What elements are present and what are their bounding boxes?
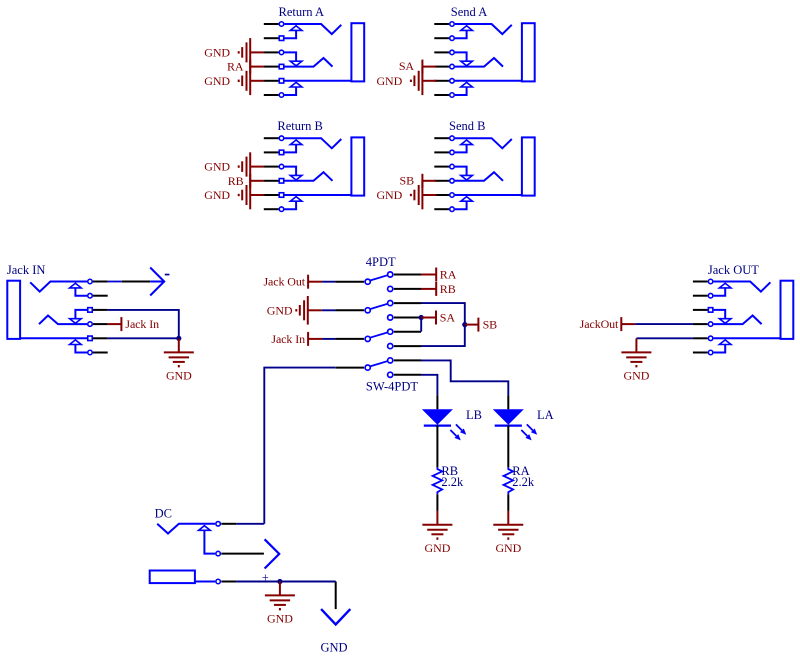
svg-text:GND: GND (204, 45, 230, 59)
svg-text:RA: RA (440, 268, 457, 282)
svg-text:SB: SB (483, 318, 498, 332)
svg-text:GND: GND (204, 74, 230, 88)
svg-text:LA: LA (537, 408, 554, 422)
svg-text:SW-4PDT: SW-4PDT (366, 379, 418, 393)
svg-text:RB: RB (228, 174, 244, 188)
svg-text:SA: SA (440, 311, 456, 325)
svg-text:Jack Out: Jack Out (263, 275, 305, 289)
svg-text:GND: GND (267, 303, 293, 317)
svg-text:Jack In: Jack In (271, 332, 305, 346)
svg-text:+: + (262, 571, 269, 585)
svg-text:Return B: Return B (277, 119, 322, 133)
svg-text:GND: GND (204, 188, 230, 202)
svg-text:DC: DC (155, 507, 172, 521)
svg-text:RB: RB (440, 282, 456, 296)
svg-text:GND: GND (204, 160, 230, 174)
svg-text:Jack IN: Jack IN (7, 263, 46, 277)
svg-text:2.2k: 2.2k (512, 475, 535, 489)
svg-text:GND: GND (376, 74, 402, 88)
svg-text:4PDT: 4PDT (366, 255, 396, 269)
svg-text:JackOut: JackOut (580, 317, 619, 331)
svg-text:Send B: Send B (449, 119, 485, 133)
svg-text:Send A: Send A (451, 5, 487, 19)
svg-text:2.2k: 2.2k (441, 475, 464, 489)
svg-text:SB: SB (400, 173, 415, 187)
svg-text:LB: LB (466, 408, 482, 422)
svg-text:RA: RA (227, 60, 244, 74)
svg-text:Jack OUT: Jack OUT (708, 263, 759, 277)
svg-text:Return A: Return A (279, 5, 324, 19)
svg-text:GND: GND (376, 188, 402, 202)
svg-text:GND: GND (320, 641, 347, 655)
svg-text:SA: SA (399, 59, 415, 73)
svg-text:Jack In: Jack In (125, 317, 159, 331)
